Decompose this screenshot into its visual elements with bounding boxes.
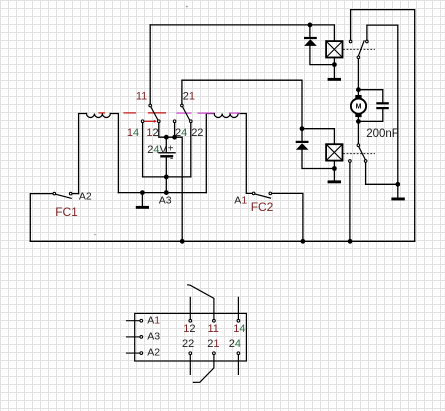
svg-text:22: 22 xyxy=(191,127,203,139)
svg-text:11: 11 xyxy=(208,323,219,335)
relay K2 coil xyxy=(206,114,252,194)
node junction ground A3 xyxy=(141,191,145,195)
svg-text:A1: A1 xyxy=(234,195,247,207)
wire S2 right contact to ground rail xyxy=(366,163,398,184)
diode D2 xyxy=(296,141,309,150)
svg-text:FC2: FC2 xyxy=(251,200,274,214)
footprint pin A1 stub xyxy=(127,320,140,322)
svg-text:24V: 24V xyxy=(147,144,167,156)
switch S1 common pole xyxy=(357,56,360,59)
wire riser of contact 11 xyxy=(149,25,151,104)
wire motor bottom to switch S2 xyxy=(357,117,359,143)
node junction D2 / solenoid Y2 xyxy=(300,127,304,131)
svg-text:A3: A3 xyxy=(147,331,160,343)
svg-text:A2: A2 xyxy=(79,191,92,203)
wire capacitor top lead xyxy=(358,90,382,102)
contact 22 terminal xyxy=(190,120,193,123)
stray mark xyxy=(186,6,187,7)
switch S1 contact B xyxy=(366,40,369,43)
wire contact 14 down xyxy=(142,123,144,177)
mechanical link dashed magenta K2 xyxy=(177,112,240,114)
node junction 24 tap xyxy=(173,135,177,139)
switch S2 contact right xyxy=(364,160,367,163)
node junction D2 / Y2 ground xyxy=(333,167,337,171)
contact 21 pivot xyxy=(181,104,184,107)
footprint pin A3 stub xyxy=(127,336,140,338)
svg-text:FC1: FC1 xyxy=(55,205,78,219)
svg-text:12: 12 xyxy=(183,323,195,335)
svg-text:21: 21 xyxy=(207,338,219,350)
svg-text:21: 21 xyxy=(183,91,195,103)
motor M1 xyxy=(351,95,366,117)
node junction top wire / diode D1 xyxy=(308,23,312,27)
solenoid Y1 crossed box xyxy=(326,41,342,57)
wire to solenoid Y2 top xyxy=(302,129,334,145)
solenoid Y2 crossed box xyxy=(326,144,342,160)
mechanical link dotted S1 xyxy=(344,48,375,50)
footprint pin 22 xyxy=(189,352,192,355)
ground symbol at rail xyxy=(391,198,404,201)
node junction battery plus xyxy=(165,135,169,139)
svg-text:14: 14 xyxy=(127,127,139,139)
node junction bus / pole wire xyxy=(180,240,184,244)
footprint pin A2 stub xyxy=(127,352,140,354)
mechanical link dotted S2 xyxy=(344,153,375,155)
svg-text:11: 11 xyxy=(136,91,147,103)
red actuation arrow at contact 12 xyxy=(145,120,157,123)
stray mark 2 xyxy=(94,234,95,235)
svg-text:12: 12 xyxy=(146,127,158,139)
wire contact 22 down xyxy=(190,123,192,177)
wire bottom bus xyxy=(30,240,414,242)
wire contact 24 down xyxy=(174,123,176,137)
contact 11 pivot xyxy=(149,104,152,107)
mechanical link dashed red K1 xyxy=(99,112,166,114)
capacitor C1 plates xyxy=(376,102,389,109)
svg-text:22: 22 xyxy=(182,338,194,350)
node junction bus / S2 xyxy=(348,240,352,244)
footprint pin 12 xyxy=(189,297,191,319)
svg-text:M: M xyxy=(356,104,362,111)
ground symbol at Y1 xyxy=(328,78,341,81)
svg-text:A1: A1 xyxy=(147,315,160,327)
wire battery minus to A2 rail xyxy=(165,177,167,193)
relay footprint outline xyxy=(135,313,247,361)
contact 24 terminal xyxy=(173,120,176,123)
switch S1 contact A xyxy=(349,40,352,43)
wire ground stub A3 xyxy=(141,193,143,206)
node junction motor bottom / capacitor xyxy=(357,120,361,124)
ground symbol A3 xyxy=(136,206,149,209)
wire FC1 left to bottom bus xyxy=(30,194,52,242)
footprint pin 11 with armature xyxy=(188,285,214,319)
svg-text:14: 14 xyxy=(233,323,245,335)
wire FC1 right to coil K1 xyxy=(73,193,79,195)
switch S2 moving arm xyxy=(359,147,365,159)
switch S1 moving arm xyxy=(359,41,365,56)
svg-text:24: 24 xyxy=(175,127,187,139)
node junction battery minus xyxy=(165,175,169,179)
wire link 14 to 22 xyxy=(143,176,191,178)
wire S1 contact A to right rail xyxy=(351,10,415,242)
diode D2 cathode wire to solenoid return xyxy=(302,150,334,169)
wire contact 21 riser to diode D2 xyxy=(182,80,302,140)
battery B1 24V xyxy=(158,137,176,177)
limit switch FC2 xyxy=(252,192,271,198)
contact 21 moving arm xyxy=(183,107,190,120)
node junction S2 / ground rail xyxy=(396,183,400,187)
wire ground rail stub xyxy=(397,184,399,197)
wire solenoid Y1 to ground xyxy=(333,58,335,78)
node junction D1 / Y1 ground xyxy=(333,63,337,67)
wire FC2 right to bottom bus xyxy=(272,193,303,241)
diode D1 xyxy=(304,37,317,46)
diode D1 anode wire xyxy=(309,25,311,37)
svg-text:24: 24 xyxy=(229,338,241,350)
contact 12 terminal xyxy=(158,120,161,123)
node junction battery minus on rail xyxy=(165,191,169,195)
wire S1 pole to motor xyxy=(357,59,359,95)
ground symbol at Y2 xyxy=(328,180,341,183)
wire S1 contact B to ground rail xyxy=(367,25,398,184)
svg-text:200nF: 200nF xyxy=(366,128,399,140)
wire top net from contact 11 to solenoid Y1 xyxy=(150,25,334,41)
svg-text:-: - xyxy=(170,153,173,164)
wire solenoid Y2 to ground xyxy=(333,161,335,181)
switch S2 common pole xyxy=(357,144,360,147)
svg-text:A3: A3 xyxy=(159,195,172,207)
wire S2 left contact to bottom bus xyxy=(349,163,351,241)
footprint pin 14 xyxy=(237,297,239,319)
relay K1 coil xyxy=(79,114,119,194)
footprint pin 24 xyxy=(237,352,240,355)
node junction bus / FC2 xyxy=(301,240,305,244)
switch S2 contact left xyxy=(349,160,352,163)
wire capacitor bottom lead xyxy=(358,109,382,121)
diode D1 cathode wire to solenoid return xyxy=(310,46,335,65)
contact 14 terminal xyxy=(141,120,144,123)
wire contact 12 to bottom bus xyxy=(159,123,182,241)
limit switch FC1 xyxy=(53,192,72,198)
wire A2 rail between coils xyxy=(118,192,206,194)
node junction motor top / capacitor xyxy=(357,88,361,92)
svg-text:A2: A2 xyxy=(147,346,160,358)
footprint pin 21 with armature xyxy=(213,352,216,355)
contact 11 moving arm xyxy=(151,107,158,120)
